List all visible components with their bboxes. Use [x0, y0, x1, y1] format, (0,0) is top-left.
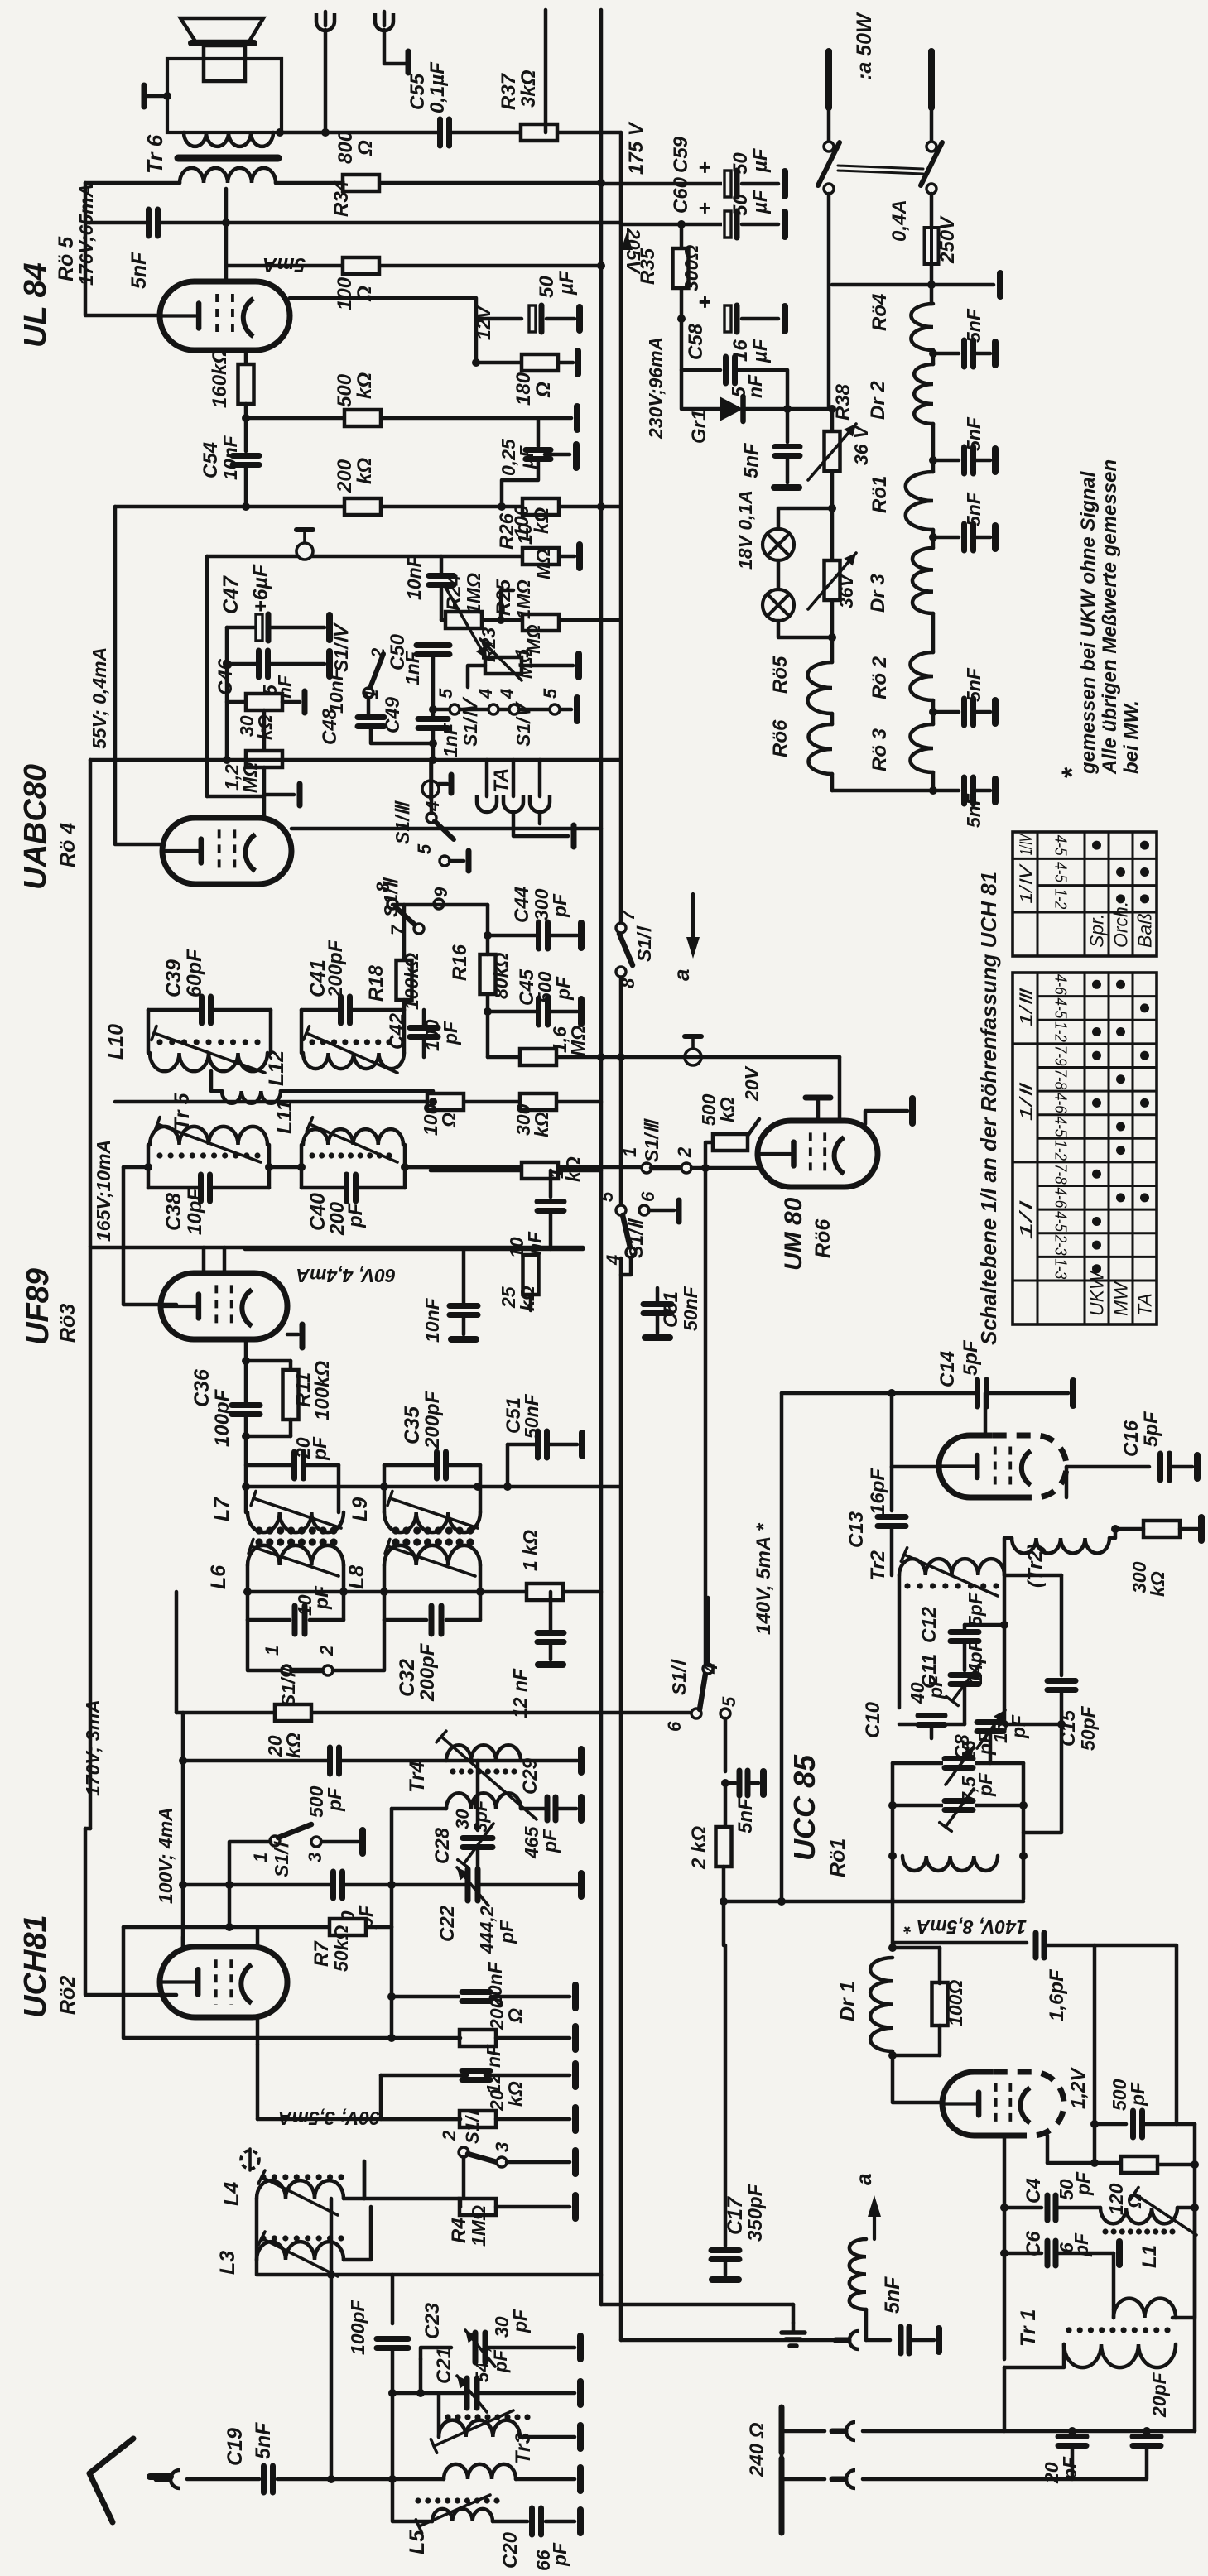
wire — [392, 1995, 461, 1999]
label kΩ — [354, 372, 376, 399]
choke Dr2 — [914, 364, 933, 424]
phono jack det — [296, 530, 313, 560]
wire — [1004, 1574, 1061, 1578]
resistor R38 — [825, 431, 840, 471]
wire — [816, 1101, 821, 1121]
resistor R35 — [673, 248, 689, 288]
resistor 500kΩ — [713, 1134, 748, 1151]
wire contact row — [433, 708, 571, 712]
label Tr5 — [171, 1093, 194, 1131]
capacitor C48 — [356, 715, 386, 729]
svg-text:C13: C13 — [845, 1511, 868, 1548]
label 5nF — [740, 442, 763, 478]
chassis terminal — [1116, 2242, 1123, 2265]
label C28 — [431, 1827, 454, 1864]
switch contact — [824, 184, 834, 194]
pot arrow — [808, 553, 856, 609]
label 1,6 — [549, 1026, 570, 1053]
chassis terminal — [572, 2026, 579, 2050]
svg-text:Tr4: Tr4 — [406, 1761, 429, 1793]
capacitor C45 — [537, 997, 551, 1026]
label 200 pF — [326, 1201, 349, 1236]
wire — [706, 1598, 710, 1664]
wire AF rail — [115, 505, 621, 509]
label 100Ω — [945, 1980, 966, 2026]
switch contact — [824, 142, 834, 151]
wire — [777, 560, 781, 589]
switch contact 1 — [282, 1665, 291, 1675]
svg-text:L8: L8 — [345, 1565, 368, 1589]
wire — [246, 1359, 291, 1363]
wire — [931, 283, 994, 287]
wire — [1057, 2206, 1100, 2210]
adjuster L1 — [1130, 2188, 1196, 2235]
svg-text:50: 50 — [536, 276, 558, 298]
capacitor 10nF — [536, 1199, 565, 1214]
capacitor C42 — [408, 1026, 440, 1040]
label MΩ — [567, 1026, 589, 1056]
label 1 — [361, 690, 382, 699]
label Ω — [532, 382, 555, 398]
capacitor 50pF — [331, 1870, 345, 1900]
core dots — [1066, 2327, 1170, 2333]
junction — [777, 1897, 786, 1906]
label S1/IV — [330, 622, 352, 672]
svg-text:10pF: 10pF — [184, 1188, 206, 1235]
svg-text:C12: C12 — [918, 1606, 941, 1643]
svg-text:MW: MW — [1110, 1281, 1132, 1316]
svg-text:1: 1 — [361, 690, 382, 699]
label 1nF — [440, 723, 461, 757]
wire tank bottom L8 — [384, 1618, 426, 1622]
wire — [748, 1119, 759, 1136]
wire — [893, 1804, 1023, 1808]
svg-text:1-2: 1-2 — [1052, 888, 1070, 909]
svg-text:4: 4 — [603, 1255, 623, 1266]
chassis terminal — [645, 1334, 670, 1341]
wire det rail — [207, 555, 575, 559]
core dots — [1102, 2228, 1175, 2234]
chassis terminal — [909, 1098, 916, 1123]
wire — [975, 459, 990, 463]
capacitor C38 — [199, 1173, 213, 1203]
svg-text:5nF: 5nF — [252, 2422, 275, 2459]
svg-text:5mA: 5mA — [262, 253, 306, 276]
svg-text:5nF: 5nF — [881, 2276, 904, 2314]
chassis terminal — [774, 484, 799, 491]
wire — [521, 1807, 546, 1811]
svg-text:Gr1: Gr1 — [688, 410, 710, 444]
chassis terminal — [297, 784, 303, 805]
svg-text:Tr3: Tr3 — [512, 2432, 535, 2464]
label Rö5 — [769, 656, 792, 694]
wire rail — [441, 618, 621, 622]
label C50 — [387, 633, 409, 670]
label 66pF — [532, 2550, 554, 2571]
label µF — [749, 147, 772, 173]
resistor 200Ω — [460, 2030, 496, 2046]
label R26 — [496, 512, 518, 550]
capacitor 20pF a — [1056, 2434, 1088, 2449]
junction — [1000, 2249, 1008, 2257]
wire — [892, 1465, 939, 1469]
svg-text:C42: C42 — [386, 1012, 408, 1050]
label Dr1 — [836, 1981, 859, 2021]
switch contact 1 — [363, 688, 373, 698]
label 20 pF — [292, 1437, 314, 1459]
chassis terminal — [572, 2064, 579, 2087]
resistor 100kΩ — [522, 498, 559, 515]
svg-text:C22: C22 — [436, 1905, 459, 1942]
wire — [724, 1945, 728, 2246]
svg-text:800: 800 — [334, 130, 357, 164]
resistor 500kΩ — [344, 410, 381, 426]
label 500 — [698, 1093, 720, 1126]
svg-text:7-8: 7-8 — [1052, 1164, 1070, 1185]
label 8 — [618, 978, 638, 988]
wire — [459, 2205, 463, 2209]
label 4 — [700, 1664, 721, 1675]
capacitor C11 — [949, 1673, 980, 1687]
label R25 — [493, 579, 515, 616]
chassis terminal — [326, 651, 333, 676]
link coil — [222, 1091, 281, 1103]
flex lead — [849, 2239, 866, 2309]
svg-text:bei MW.: bei MW. — [1120, 700, 1143, 774]
table caption — [976, 872, 1001, 1345]
svg-text:S1/Ⅱ: S1/Ⅱ — [277, 1666, 299, 1707]
wire — [963, 1685, 967, 1724]
label 5nF — [734, 1797, 757, 1833]
label Tr3 — [512, 2432, 535, 2464]
label C41 — [306, 959, 330, 997]
junction — [828, 405, 836, 413]
junction — [163, 92, 171, 100]
wire — [1112, 2309, 1116, 2318]
capacitor C4 — [1045, 2194, 1058, 2222]
svg-text:Orch.: Orch. — [1110, 901, 1132, 948]
coil Tr3 main — [444, 2464, 516, 2479]
svg-text:300Ω: 300Ω — [681, 245, 702, 291]
label kΩ — [531, 507, 553, 534]
capacitor 20nF — [460, 1990, 492, 2004]
label 3pF — [470, 1800, 491, 1833]
svg-text:50kΩ: 50kΩ — [330, 1925, 352, 1972]
wire — [725, 1781, 735, 1785]
capacitor 5nF — [962, 776, 976, 805]
label C8 — [951, 1734, 974, 1760]
IF coil L11 — [303, 1129, 403, 1145]
svg-text:L5: L5 — [406, 2530, 429, 2554]
wire — [485, 2074, 570, 2078]
label 1 kΩ — [546, 1168, 567, 1179]
label pF — [355, 1905, 377, 1930]
fuse 0,4A — [925, 223, 939, 269]
wire — [938, 2026, 942, 2055]
dipole jack 2 — [832, 2470, 855, 2488]
label pF — [975, 1731, 996, 1756]
speaker jack — [316, 12, 334, 31]
chassis terminal — [578, 1797, 585, 1820]
label Ω — [354, 286, 376, 302]
label Dr 3 — [867, 574, 889, 613]
wire — [225, 627, 229, 760]
label R11 — [292, 1372, 315, 1407]
dial lamp — [763, 529, 794, 560]
adjuster L4 — [258, 2170, 338, 2215]
svg-text:444,2: 444,2 — [476, 1906, 498, 1954]
svg-text:10nF: 10nF — [325, 668, 347, 714]
switch arm S1/III — [652, 1165, 681, 1171]
wire — [301, 1186, 345, 1190]
capacitor 5nF — [773, 445, 801, 459]
svg-text:C47: C47 — [219, 575, 243, 614]
jack a — [835, 2331, 859, 2349]
svg-text:50: 50 — [729, 194, 752, 216]
label 16 µF — [729, 339, 752, 362]
label L12 — [265, 1050, 288, 1086]
svg-text:5nF: 5nF — [963, 793, 984, 828]
chassis terminal — [782, 171, 788, 196]
label 230V;96mA — [645, 337, 667, 440]
label 1 — [512, 648, 532, 658]
core dots — [156, 1039, 260, 1045]
switch contact 3 — [497, 2157, 507, 2167]
label Rö4 — [869, 294, 891, 331]
wire — [257, 2036, 460, 2040]
adjuster L3 — [258, 2232, 338, 2276]
chassis terminal — [572, 2151, 579, 2174]
adjuster 7,5pF — [940, 1789, 974, 1831]
chassis terminal — [576, 545, 583, 568]
junction — [503, 1483, 512, 1491]
wire — [324, 30, 328, 132]
core dots — [260, 2174, 344, 2180]
capacitor C28 — [461, 1836, 494, 1850]
wire rail — [245, 1247, 583, 1252]
label kΩ — [562, 1156, 584, 1182]
svg-text:S1/Ⅳ: S1/Ⅳ — [460, 696, 481, 747]
mains plug prong 2 — [928, 51, 935, 108]
wire — [422, 1010, 426, 1026]
label 5pF — [965, 1592, 986, 1627]
wire — [1115, 1527, 1143, 1531]
wire — [786, 409, 790, 442]
capacitor C36 — [230, 1403, 262, 1417]
label Dr 2 — [867, 381, 889, 420]
wire — [1023, 1724, 1061, 1833]
resistor 200kΩ — [344, 498, 381, 515]
svg-text:6: 6 — [664, 1721, 685, 1732]
label C23 — [421, 2302, 444, 2339]
junction — [1000, 1720, 1008, 1728]
wire — [560, 1169, 601, 1173]
wire — [181, 1937, 185, 1947]
junction — [429, 756, 437, 764]
resistor 1,6MΩ — [520, 1049, 556, 1065]
label 500 pF — [306, 1785, 327, 1818]
junction — [929, 349, 937, 358]
wire — [486, 905, 490, 954]
junction — [888, 1944, 897, 1952]
junction — [179, 1757, 187, 1765]
wire IF out rail — [248, 1590, 527, 1594]
svg-text:5: 5 — [596, 1191, 617, 1202]
coil Tr1 upper — [1114, 2299, 1176, 2318]
wire — [476, 1761, 480, 1830]
capacitor C8 — [975, 1720, 1005, 1734]
label 20 kΩ — [486, 2089, 508, 2112]
resistor R26 10MΩ — [522, 548, 559, 565]
footnote line 2 — [1099, 459, 1121, 775]
svg-text:Rö3: Rö3 — [56, 1304, 79, 1343]
svg-text:2: 2 — [439, 2130, 460, 2141]
wire — [931, 1723, 965, 1727]
wire center tap — [224, 189, 229, 281]
wire — [229, 1842, 271, 1885]
label UL 84 — [18, 262, 53, 348]
choke Dr3 — [912, 548, 933, 613]
svg-text:Rö1: Rö1 — [826, 1838, 849, 1877]
svg-text:Rö 2: Rö 2 — [869, 656, 891, 699]
wire rail165 — [91, 1246, 583, 1250]
switch contact 8 — [387, 899, 397, 909]
svg-text:kΩ: kΩ — [1147, 1571, 1168, 1597]
label + — [692, 161, 717, 174]
label R16 — [449, 944, 471, 981]
svg-text:16pF: 16pF — [867, 1468, 889, 1515]
label 5nF — [252, 2422, 275, 2459]
label (Tr2) — [1024, 1544, 1047, 1588]
label Ω — [504, 2008, 526, 2024]
label C48 — [319, 708, 341, 745]
label 100 Ω — [334, 276, 356, 310]
label 2 — [368, 647, 388, 659]
label 200pF — [421, 1390, 444, 1449]
wire — [893, 2054, 940, 2058]
capacitor C35 — [435, 1450, 449, 1480]
svg-text:Rö 3: Rö 3 — [869, 728, 891, 771]
wire — [931, 772, 936, 791]
wire — [989, 1733, 993, 1763]
svg-text:pF: pF — [440, 1021, 461, 1045]
wire — [863, 2429, 1195, 2434]
label 50 µF — [536, 276, 558, 298]
wire — [890, 1393, 894, 1467]
junction — [242, 414, 250, 422]
switch arm S1/IV — [370, 654, 383, 688]
junction — [677, 220, 686, 228]
wire — [270, 662, 325, 666]
adjuster Tr3 — [431, 2410, 513, 2453]
svg-text:S1/Ⅱ: S1/Ⅱ — [625, 1218, 647, 1258]
label 6 — [664, 1721, 685, 1732]
label 100kΩ — [401, 953, 422, 1010]
label Rö1 — [869, 476, 891, 513]
wire — [724, 1718, 728, 1771]
svg-text:4-6: 4-6 — [1052, 1187, 1070, 1209]
label C39 — [162, 959, 185, 997]
wire — [485, 760, 489, 796]
svg-text:1: 1 — [250, 1853, 271, 1862]
wire — [891, 1899, 895, 1943]
label -20V — [741, 1065, 763, 1102]
wire — [786, 457, 790, 483]
label 0,25 — [498, 438, 519, 476]
svg-text:S1/Ⅲ: S1/Ⅲ — [392, 800, 413, 844]
svg-text:5nF: 5nF — [128, 252, 151, 289]
label UF89 — [21, 1268, 55, 1345]
svg-text:+6µF: +6µF — [249, 564, 272, 613]
svg-text:C46: C46 — [214, 658, 237, 695]
wire — [933, 459, 959, 463]
label C14 — [936, 1351, 959, 1387]
svg-text:7: 7 — [618, 909, 638, 920]
label C51 — [503, 1397, 525, 1434]
label 10nF — [219, 435, 241, 480]
wire — [1170, 1465, 1192, 1469]
wire — [262, 767, 267, 818]
wire — [262, 710, 267, 751]
wire — [148, 1186, 200, 1190]
wire — [1065, 1467, 1069, 1497]
wire — [975, 789, 990, 793]
svg-text:C51: C51 — [660, 1291, 682, 1328]
label L7 — [210, 1497, 233, 1521]
coil Tr1 lower — [1064, 2344, 1176, 2367]
wire — [421, 2348, 451, 2359]
svg-text:µF: µF — [749, 189, 772, 214]
chassis terminal — [936, 2328, 942, 2352]
label 14pF — [965, 1639, 986, 1684]
TA jack — [477, 795, 497, 812]
wire — [148, 1008, 201, 1012]
wire — [549, 1592, 553, 1632]
label 80 kΩ — [490, 953, 512, 999]
adjuster 15pF — [946, 1747, 974, 1785]
label 5nF — [963, 416, 984, 451]
label C42 — [386, 1012, 408, 1050]
wire — [681, 319, 720, 370]
capacitor 100pF — [375, 2337, 410, 2351]
label 7,5 pF — [958, 1776, 979, 1803]
label 1,2 — [221, 764, 243, 791]
wire — [479, 1465, 483, 1512]
svg-text:50: 50 — [729, 152, 752, 175]
label 175V — [625, 121, 647, 175]
junction — [701, 1164, 710, 1172]
junction — [242, 1483, 250, 1491]
svg-text:4-6: 4-6 — [1052, 1093, 1070, 1114]
wire — [267, 1145, 272, 1188]
svg-text:C39: C39 — [162, 959, 185, 997]
wire — [1004, 2344, 1064, 2367]
wire — [289, 1420, 293, 1436]
capacitor C13 — [876, 1515, 907, 1529]
label Rö2 — [56, 1976, 79, 2015]
label 5nF — [128, 252, 151, 289]
switch contact — [926, 184, 936, 194]
arrow a — [691, 894, 695, 940]
wire — [933, 352, 959, 356]
wire B+ rail — [621, 223, 725, 227]
junction — [484, 931, 492, 940]
chassis terminal — [577, 2425, 584, 2449]
label pF — [1059, 2456, 1080, 2481]
wire — [146, 94, 167, 99]
label pF — [925, 1675, 946, 1699]
label pF — [509, 2309, 531, 2333]
